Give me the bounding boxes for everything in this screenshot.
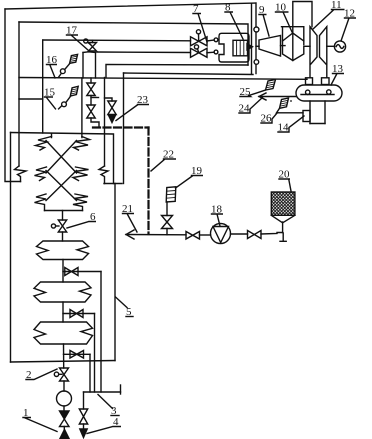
- valve drain 2nd stage: [63, 310, 95, 393]
- wire heater3 outlet: [63, 344, 65, 368]
- label 3: [98, 395, 119, 418]
- wire stack X1: [46, 141, 77, 174]
- wire LP exhaust seal right: [322, 78, 330, 85]
- heat exchanger stack row A: [36, 137, 90, 151]
- valve 1 drain valve: [60, 411, 70, 427]
- label 4: [87, 416, 121, 434]
- wire L2 torn end: [15, 166, 27, 182]
- wire left border L1: [5, 9, 21, 182]
- label 25: [240, 86, 266, 98]
- wire LP to generator shaft: [327, 45, 335, 47]
- wire drain bus: [84, 385, 121, 394]
- label 10: [275, 2, 292, 33]
- valve pump suction: [186, 232, 200, 240]
- label 14: [278, 116, 305, 134]
- turbine LP section 11: [310, 27, 327, 78]
- label 20: [279, 169, 292, 192]
- label 5: [116, 297, 134, 318]
- wire second header H2: [19, 22, 248, 65]
- valve makeup branch: [162, 202, 173, 235]
- wire pipe heater1-heater2: [62, 260, 64, 283]
- flag 16 drain symbol: [58, 54, 77, 77]
- valve 17 motor valve: [84, 39, 97, 51]
- wire valve 7a outlet flange: [207, 38, 218, 42]
- condenser 13: [296, 85, 342, 101]
- label 7: [193, 3, 207, 42]
- wire LP exhaust seal left: [306, 78, 313, 85]
- wire relief column x104: [104, 78, 106, 167]
- wire valve block bottom edge: [106, 65, 248, 78]
- wire condenser neck: [310, 101, 325, 124]
- wire heater header y133: [11, 133, 114, 184]
- wire third header H3: [43, 39, 191, 42]
- valve 23 relief valve: [105, 98, 117, 123]
- pump 18: [200, 224, 248, 244]
- wire stack bottom edge: [45, 210, 83, 212]
- wire left compartment vertical x82: [81, 78, 83, 133]
- label 12: [341, 8, 356, 42]
- wire inlet flow arrow: [247, 44, 253, 50]
- valve 4 drain valve: [79, 409, 87, 429]
- drain funnel left: [60, 430, 69, 439]
- flag 25 cooling water: [266, 80, 276, 91]
- heat exchanger stack row B: [35, 167, 89, 181]
- wire valve1 to drain: [63, 427, 65, 432]
- wire pipe heater2-heater3: [62, 302, 64, 322]
- wire drop pipe narrow box below valve 17: [83, 52, 96, 78]
- turbine HP section: [256, 36, 281, 57]
- valve 7b control valve: [191, 45, 208, 57]
- label 21: [122, 203, 137, 232]
- node stray dot: [290, 100, 292, 102]
- tank 20 chemical feed: [271, 192, 295, 223]
- wire drain column x91 with two valves: [87, 78, 99, 128]
- wire stack X2: [46, 171, 77, 201]
- wire left line L2: [18, 22, 20, 166]
- valve 7a control valve: [191, 30, 208, 46]
- label 6: [67, 211, 96, 228]
- label 9: [259, 4, 269, 36]
- wire main steam header H1: [5, 3, 256, 74]
- valve stem circle 9 lower: [254, 60, 259, 65]
- heater 2: [34, 282, 91, 302]
- valve 6 motor valve: [51, 220, 66, 232]
- heat exchanger stack row C: [35, 194, 89, 211]
- label 24: [239, 98, 263, 115]
- drain funnel right: [80, 429, 87, 438]
- heater 1: [37, 241, 89, 260]
- label 2: [26, 369, 57, 381]
- wire stack outlet pipe: [62, 211, 64, 221]
- label 22: [151, 149, 176, 172]
- separator reheater 10: [282, 27, 304, 61]
- wire chest to inlet junction: [249, 45, 252, 47]
- wire extraction line A: [19, 78, 307, 80]
- air ejector box 14: [303, 111, 310, 122]
- steam chest 8: [219, 33, 249, 62]
- heater 3: [34, 322, 93, 344]
- wire discharge to tank: [261, 222, 286, 241]
- wire HP to separator shaft: [281, 45, 286, 47]
- valve 2 motor valve: [54, 368, 68, 381]
- wire bold dashed drain line 22 horizontal: [93, 126, 149, 128]
- wire box top right link: [104, 183, 122, 185]
- wire crossover line y52 H4: [97, 51, 191, 54]
- wire valve2 to pump: [63, 381, 65, 391]
- label 8: [225, 2, 243, 40]
- valve pump discharge: [248, 231, 262, 239]
- flag 26 circulation: [277, 98, 304, 113]
- label 16: [46, 54, 58, 78]
- pump condensate: [57, 391, 72, 406]
- valve drain 1st stage: [63, 268, 101, 393]
- label 17: [66, 25, 88, 51]
- flag 15 drain symbol: [59, 86, 79, 109]
- valve stem circle 9 upper: [254, 27, 259, 32]
- wire stack inlet ticks: [52, 134, 82, 138]
- label 19: [176, 165, 204, 188]
- wire crossover duct: [293, 2, 312, 27]
- valve drain 3rd stage: [64, 351, 91, 393]
- wire line B drop: [123, 73, 125, 184]
- wire riser to valve 4: [83, 392, 85, 409]
- wire separator to LP shaft: [304, 45, 310, 47]
- label 13: [331, 63, 344, 85]
- label 26: [261, 113, 278, 125]
- label 23: [116, 94, 149, 121]
- wire big box left edge: [10, 133, 12, 363]
- wire big box right edge: [114, 184, 116, 361]
- label 18: [211, 204, 223, 227]
- wire steam pipe parallel: [251, 4, 253, 74]
- wire valve 7b outlet flange: [207, 50, 218, 54]
- wire pipe to heater1: [62, 232, 64, 241]
- wire pump to valve1: [63, 406, 65, 411]
- wire big box bottom edge: [11, 361, 116, 363]
- wire stub line y99: [19, 98, 43, 100]
- label 1: [23, 407, 57, 432]
- wire cooling water outlet 24: [259, 93, 296, 100]
- wire left line L3: [42, 40, 44, 133]
- heater element 19: [166, 187, 176, 202]
- wire bold dashed drain line 22 vertical: [147, 128, 149, 235]
- wire extraction line B: [124, 73, 254, 75]
- wire torn mark on x104: [99, 166, 108, 184]
- label 15: [44, 87, 56, 109]
- label 11: [313, 0, 345, 29]
- wire condensate suction arrow 21: [126, 230, 186, 239]
- generator 12: [334, 41, 345, 52]
